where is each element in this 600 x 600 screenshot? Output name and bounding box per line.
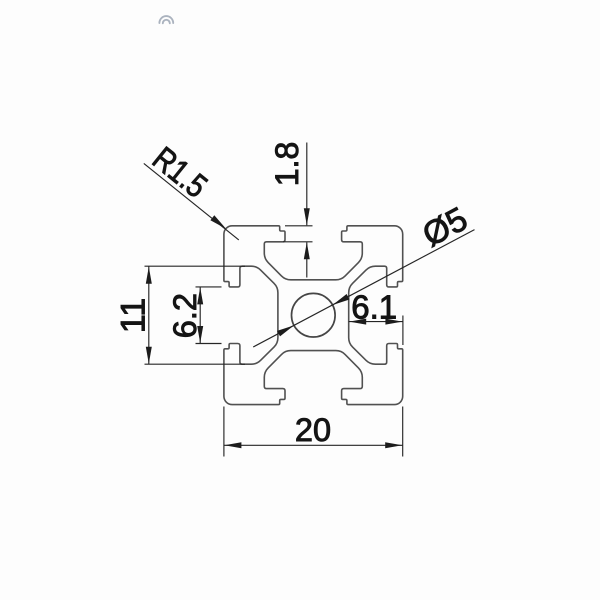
dimension 6.2 left slot opening xyxy=(167,287,222,344)
dimension 11 left xyxy=(114,266,245,364)
leader Ø5 center hole xyxy=(253,201,474,347)
svg-text:11: 11 xyxy=(114,298,152,333)
svg-text:20: 20 xyxy=(295,412,331,448)
dimension 1.8 top lip thickness xyxy=(269,142,312,278)
center hole Ø5 xyxy=(292,293,336,337)
svg-text:6.2: 6.2 xyxy=(167,293,203,338)
dimension 20 bottom xyxy=(224,407,403,457)
aluminum extrusion profile outline xyxy=(224,226,403,405)
leader R1.5 corner radius xyxy=(144,139,239,239)
decorative arc icon xyxy=(159,16,173,23)
svg-text:1.8: 1.8 xyxy=(269,142,305,186)
dimension 6.1 right slot depth xyxy=(349,289,403,346)
svg-text:6.1: 6.1 xyxy=(351,289,397,326)
